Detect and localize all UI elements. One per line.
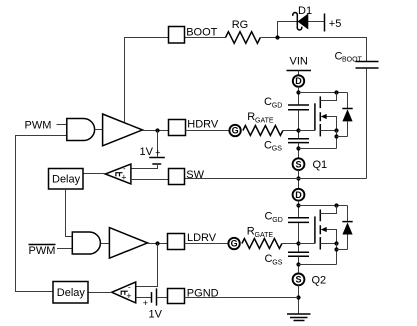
resistor RGATE (lower) — [242, 239, 282, 249]
wire HDRV to G1 — [186, 130, 230, 132]
wire RGATE2 to gate node — [282, 243, 299, 245]
wire Q2 source down — [336, 244, 338, 265]
svg-text:C: C — [265, 253, 273, 265]
wire SW rail — [185, 178, 367, 180]
svg-text:GS: GS — [272, 259, 282, 266]
terminal S (Q2 source) — [293, 274, 305, 286]
body diode Q1 triangle — [342, 109, 352, 121]
node dot Q2 source stub — [334, 241, 338, 245]
wire RGATE to gate node — [283, 130, 299, 132]
wire comparator2 out to Delay2 — [88, 292, 112, 294]
svg-text:+: + — [126, 291, 131, 301]
svg-text:GATE: GATE — [255, 232, 274, 239]
capacitor CGD (Q2) — [288, 218, 309, 223]
capacitor CGS (Q2) — [288, 252, 309, 256]
wire CGD2 to gate node to CGS2 — [298, 223, 300, 252]
svg-text:+: + — [143, 298, 148, 308]
svg-text:Q1: Q1 — [313, 159, 328, 171]
node dot PGND join — [296, 295, 300, 299]
wire CGD to gate node to CGS (Q1) — [298, 110, 300, 138]
svg-text:LDRV: LDRV — [187, 232, 217, 244]
svg-text:GS: GS — [272, 146, 282, 153]
terminal S (Q1 source) — [293, 158, 305, 170]
terminal D (Q1 drain) — [293, 75, 304, 86]
wire D2 circle to CGD (Q2) — [298, 201, 300, 217]
node dot Q2 drain stub — [334, 203, 338, 207]
and-gate U1 — [67, 119, 95, 141]
svg-text:BOOT: BOOT — [186, 27, 217, 39]
svg-text:S: S — [295, 159, 301, 169]
label PWM-bar — [29, 245, 56, 257]
capacitor CGS (Q1) — [288, 139, 309, 143]
svg-text:C: C — [264, 96, 272, 108]
svg-text:GD: GD — [272, 217, 283, 224]
pin box SW — [169, 169, 185, 185]
node dot Q2 drain rail — [296, 203, 300, 207]
wire buffer out to HDRV — [142, 130, 168, 132]
wire BOOT pin to bootstrap feed into driver — [125, 38, 169, 123]
resistor RGATE (upper) — [243, 126, 283, 136]
node dot Q2 body diode join — [334, 247, 338, 251]
wire RG to CBOOT top (BOOT rail) — [261, 38, 367, 62]
svg-text:S: S — [295, 275, 301, 285]
node dot Q1 body diode join — [334, 134, 338, 138]
power terminal VIN underline — [287, 70, 312, 72]
wire D1 branch from BOOT rail junction — [278, 22, 299, 38]
buffer U2 (high-side driver) — [103, 114, 143, 146]
wire CGS to S circle (Q1) — [298, 143, 300, 158]
svg-text:G: G — [232, 126, 239, 136]
svg-text:C: C — [265, 211, 273, 223]
comparator U3 (upper) — [105, 164, 131, 184]
wire CBOOT bottom to SW rail — [366, 69, 368, 179]
body diode Q2 triangle — [342, 222, 352, 234]
wire Q2 drain rail — [299, 205, 348, 207]
pin box PGND — [168, 289, 185, 304]
wire Q1 source join — [299, 148, 337, 150]
wire VIN to D circle (Q1) — [298, 71, 300, 76]
resistor RG — [226, 32, 261, 44]
svg-text:+: + — [155, 147, 160, 157]
wire Delay1 down to AND2 input — [66, 189, 73, 237]
svg-text:Q2: Q2 — [312, 274, 327, 286]
wire PWMbar to AND2 — [57, 248, 72, 250]
svg-text:1V: 1V — [149, 308, 163, 320]
svg-text:D: D — [295, 190, 302, 200]
svg-text:PWM: PWM — [25, 119, 52, 131]
body diode Q1 wires — [337, 93, 348, 137]
diode D1 (schottky) — [293, 13, 308, 30]
svg-text:Delay: Delay — [52, 173, 81, 185]
wire PWM to AND1 — [57, 124, 67, 126]
terminal D (Q2 drain) — [293, 189, 305, 201]
mosfet Q1 source stub — [320, 130, 336, 132]
wire LDRV to G2 — [185, 243, 229, 245]
mosfet Q1 drain stub — [320, 93, 336, 101]
ground — [287, 314, 311, 321]
delay box upper — [49, 169, 84, 190]
svg-text:PWM: PWM — [29, 245, 56, 257]
capacitor CGD (Q1) — [288, 105, 309, 110]
mosfet Q1 channel segments — [319, 96, 321, 136]
and-gate U4 (lower) — [72, 232, 100, 254]
svg-text:G: G — [231, 239, 238, 249]
wire PGND to ground node — [185, 297, 299, 299]
svg-text:RG: RG — [232, 19, 249, 31]
battery 1V (upper) — [131, 131, 165, 169]
node junction dot BOOT/RG/D1 — [275, 35, 279, 39]
body diode Q1 cathode bar — [342, 108, 352, 110]
body diode Q2 cathode bar — [342, 221, 352, 223]
svg-text:GATE: GATE — [255, 118, 274, 125]
svg-text:D1: D1 — [298, 5, 312, 17]
power terminal +5 — [324, 14, 326, 32]
node dot Q1 drain rail — [296, 90, 300, 94]
wire comparator plus input to SW box — [131, 179, 169, 181]
wire feedback from lower delay up left side to AND1 lower input — [16, 136, 67, 292]
mosfet Q2 gate bar — [314, 216, 316, 243]
node dot Q2 source join — [296, 262, 300, 266]
node dot SW rail — [296, 176, 300, 180]
node dot HDRV — [155, 128, 159, 132]
svg-text:SW: SW — [186, 169, 204, 181]
mosfet Q2 channel segments — [319, 210, 321, 250]
terminal G2 — [228, 238, 239, 249]
terminal G1 — [229, 125, 240, 136]
wire Q1 source down — [336, 131, 338, 149]
comparator U6 (lower) — [112, 282, 136, 303]
wire comparator2 minus input up to LDRV node — [136, 244, 158, 287]
body diode Q2 wires — [337, 206, 348, 250]
wire S2 to ground — [298, 286, 300, 314]
wire D circle to CGD (Q1) — [298, 87, 300, 105]
svg-text:BOOT: BOOT — [342, 57, 363, 64]
svg-text:+: + — [121, 173, 126, 183]
wire S circle to SW rail to Q2 drain — [298, 170, 300, 188]
wire Q1 drain rail — [299, 92, 348, 94]
delay box lower — [53, 282, 88, 304]
svg-text:C: C — [264, 139, 272, 151]
node dot LDRV — [155, 241, 159, 245]
wire comparator out to Delay1 — [83, 173, 105, 175]
node dot Q1 source join — [296, 146, 300, 150]
mosfet Q1 body arrow — [321, 114, 327, 119]
battery 1V (lower) — [136, 288, 168, 320]
svg-text:HDRV: HDRV — [187, 119, 219, 131]
mosfet Q1 body stub — [325, 117, 337, 131]
pin box LDRV — [168, 234, 185, 250]
mosfet Q2 body stub — [325, 230, 337, 244]
mosfet Q2 source stub — [320, 243, 336, 245]
mosfet Q1 gate bar — [314, 103, 316, 130]
svg-text:VIN: VIN — [290, 56, 308, 68]
wire buffer2 to LDRV — [148, 243, 168, 245]
mosfet Q1 gate lead — [299, 130, 315, 132]
node dot Q1 gate — [296, 128, 300, 132]
wire CGS2 to S2 circle — [298, 257, 300, 274]
wire D1 anode to +5 terminal — [308, 21, 325, 23]
svg-text:GD: GD — [272, 102, 283, 109]
svg-text:D: D — [295, 76, 302, 86]
pin box HDRV — [169, 120, 186, 136]
mosfet Q2 gate lead — [299, 243, 315, 245]
buffer U5 (low-side driver) — [109, 228, 147, 259]
pin box BOOT — [169, 27, 185, 44]
node dot Q1 source stub — [334, 128, 338, 132]
wire AND1 to buffer — [95, 129, 103, 131]
svg-text:Delay: Delay — [57, 287, 86, 299]
mosfet Q2 drain stub — [320, 206, 336, 214]
mosfet Q2 body arrow — [321, 227, 327, 232]
wire AND2 to buffer2 — [101, 243, 110, 245]
svg-text:1V: 1V — [140, 146, 154, 158]
node dot Q1 drain stub — [334, 90, 338, 94]
node dot Q2 gate — [296, 241, 300, 245]
capacitor CBOOT — [356, 62, 379, 69]
wire BOOT pin to RG — [185, 37, 226, 39]
wire Q2 source join — [299, 264, 337, 266]
svg-text:+5: +5 — [329, 18, 342, 30]
